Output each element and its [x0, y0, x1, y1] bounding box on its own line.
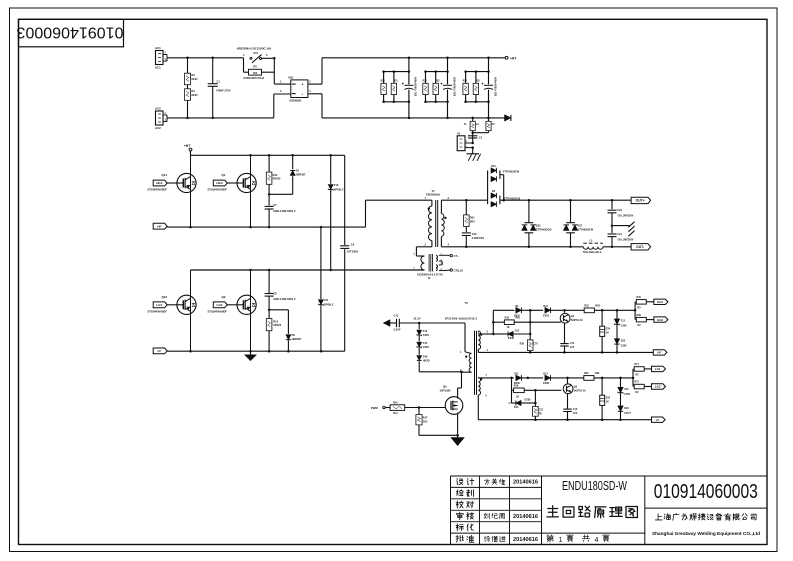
capacitor C8 (snubber) [265, 270, 296, 310]
svg-text:+: + [302, 82, 304, 86]
svg-text:Q5: Q5 [574, 386, 578, 389]
svg-text:R30: R30 [381, 81, 386, 83]
resistor R3 [185, 58, 199, 85]
zener Z23 [618, 378, 631, 396]
svg-text:Q1: Q1 [222, 173, 226, 177]
resistor R18 [493, 316, 560, 329]
net flag OUT- [631, 244, 651, 250]
svg-text:CT(L)A: CT(L)A [454, 268, 463, 272]
svg-text:D25XB60: D25XB60 [290, 98, 302, 102]
wire secondary- rail [441, 246, 631, 249]
svg-text:+HT: +HT [510, 56, 516, 60]
wire aux supply rail [418, 322, 472, 354]
svg-text:20140616: 20140616 [513, 514, 538, 520]
svg-text:R33: R33 [435, 81, 440, 83]
svg-text:BCP52-16: BCP52-16 [574, 390, 586, 393]
capacitor C1 [208, 58, 231, 118]
connector AC2 [155, 107, 167, 131]
svg-text:T3: T3 [464, 301, 468, 305]
capacitor C21 (Y-cap) [608, 224, 634, 246]
svg-text:CBB 2.2NF/1600 V: CBB 2.2NF/1600 V [273, 297, 296, 301]
svg-text:1R2: 1R2 [253, 72, 258, 75]
arrow DC- off-page [505, 115, 511, 122]
transformer T1 [425, 189, 450, 247]
wire secondary+ rail [441, 199, 631, 202]
svg-text:C30V: C30V [423, 346, 430, 349]
diode D12 [543, 373, 550, 386]
label 31.2V [414, 317, 421, 321]
svg-text:T1: T1 [431, 189, 435, 193]
svg-text:Q12: Q12 [162, 295, 168, 299]
svg-text:AC2: AC2 [155, 107, 161, 111]
company name 上海广为焊接设备有限公司 [655, 513, 756, 520]
svg-text:Y2A,1NF/250V: Y2A,1NF/250V [617, 214, 633, 217]
svg-text:R23: R23 [584, 372, 589, 375]
capacitor E25 [600, 378, 611, 420]
svg-text:HF: HF [157, 224, 161, 228]
svg-text:E02 470UF/400V: E02 470UF/400V [453, 76, 456, 96]
svg-text:8K22: 8K22 [192, 94, 199, 97]
resistor R13 (snubber) [266, 310, 281, 351]
wire bridge pin4 to DC return [308, 94, 322, 118]
svg-text:R32: R32 [423, 81, 428, 83]
svg-text:EE65X65x9: EE65X65x9 [426, 193, 440, 197]
zener Z13 [614, 310, 627, 327]
svg-text:C21: C21 [539, 409, 544, 412]
svg-text:STGW40V60DF: STGW40V60DF [208, 188, 228, 192]
capacitor C15 [563, 408, 578, 420]
svg-text:ENDU180SD-W: ENDU180SD-W [562, 479, 627, 493]
svg-text:+HT: +HT [184, 144, 190, 148]
svg-text:3R3: 3R3 [470, 221, 475, 224]
svg-text:T106-26&A-04LA: T106-26&A-04LA [583, 251, 602, 254]
resistor R16 [390, 401, 445, 415]
svg-text:Z13: Z13 [621, 320, 626, 323]
svg-text:1K: 1K [516, 395, 519, 398]
svg-text:Z11: Z11 [324, 298, 329, 302]
svg-text:HG2: HG2 [216, 181, 223, 185]
svg-text:1: 1 [559, 537, 563, 544]
resistor R71 [633, 363, 652, 376]
svg-text:Q3: Q3 [443, 384, 447, 388]
net flag OUT+ [631, 197, 651, 203]
diode D1 (snubber) [268, 155, 306, 195]
wire bridge pin2 to DC bus [308, 58, 322, 84]
svg-text:4: 4 [595, 537, 599, 544]
vertical bus to gate resistors (upper) [634, 302, 636, 320]
capacitor C22 (Y-cap) [608, 200, 634, 225]
transistor Q3 [440, 372, 463, 435]
wire aux upper node2 [551, 309, 585, 312]
vertical x=535 (lower aux) [534, 390, 536, 406]
svg-text:EE16X8X4.8-0.2-2T 5%: EE16X8X4.8-0.2-2T 5% [417, 273, 443, 276]
capacitor C2 [468, 136, 483, 144]
svg-text:K01: K01 [254, 52, 259, 55]
transformer T3 core [475, 331, 477, 395]
svg-text:D10: D10 [543, 305, 548, 308]
svg-text:R18: R18 [505, 316, 510, 319]
wire lower collector rail [191, 269, 425, 272]
capacitor bank group 3 (E03 with bleeders R34 R35) [463, 58, 498, 118]
net flag LG2 [213, 302, 227, 308]
diode D22 [614, 324, 627, 352]
svg-text:OUT-: OUT- [636, 245, 644, 249]
title block approval table text [456, 478, 538, 542]
svg-text:1K: 1K [606, 331, 609, 334]
svg-text:LG2: LG2 [655, 385, 661, 389]
wire aux lower feed [510, 377, 514, 403]
svg-text:ES36: ES36 [525, 398, 532, 401]
capacitor C20 (RC snubber) [462, 233, 485, 247]
svg-text:7R: 7R [539, 413, 542, 416]
svg-text:AC1: AC1 [155, 46, 161, 50]
ground below Q3 [451, 435, 465, 445]
svg-text:R21: R21 [470, 217, 475, 220]
svg-text:C30V: C30V [621, 325, 627, 328]
svg-text:R72: R72 [634, 381, 639, 384]
wire relay to bridge [262, 57, 291, 84]
svg-text:470NF 275V: 470NF 275V [216, 89, 231, 93]
transistor Q12 [148, 270, 197, 351]
svg-text:C9: C9 [351, 242, 355, 246]
svg-text:2.2NF/2KV: 2.2NF/2KV [472, 237, 485, 240]
wire aux lower return [478, 418, 651, 421]
diode pair D17 (freewheel) [563, 200, 593, 247]
svg-text:1K2: 1K2 [423, 420, 428, 423]
diode pair D21 [488, 165, 520, 200]
svg-text:D22: D22 [621, 340, 626, 343]
transil Z11 [318, 227, 334, 351]
varistor Z2 [471, 118, 495, 134]
svg-text:LF: LF [158, 349, 162, 353]
title ENDU180SD-W [562, 479, 627, 493]
net flag LF (aux) [652, 417, 666, 422]
page number row (sheet 1 of 4) [547, 535, 610, 544]
svg-text:ES16: ES16 [543, 314, 550, 317]
varistor Z1 [464, 118, 480, 143]
svg-text:R13: R13 [273, 319, 278, 323]
document number 010914060003 [654, 480, 758, 503]
net flag LG2 (aux) [652, 384, 666, 389]
svg-text:LF: LF [656, 418, 660, 422]
svg-text:E03 470UF/400V: E03 470UF/400V [494, 76, 497, 96]
vertical x=530 (upper aux) [529, 310, 531, 340]
capacitor C9 [340, 155, 358, 351]
svg-text:10F1N20: 10F1N20 [440, 388, 452, 392]
wire aux upper feed [492, 310, 514, 335]
transformer T3 secondary upper [478, 331, 493, 352]
svg-text:C30 V: C30 V [624, 412, 631, 415]
diode pair D0 [488, 190, 521, 207]
resistor R69 [635, 314, 654, 327]
diode pair D23 (freewheel) [522, 200, 552, 247]
svg-text:ES36: ES36 [543, 382, 550, 385]
relay K01 [237, 46, 272, 63]
svg-text:D2: D2 [292, 333, 296, 337]
svg-text:C7: C7 [273, 203, 277, 207]
title 主回路原理图 (main circuit schematic) [547, 506, 637, 518]
svg-text:LG2: LG2 [216, 303, 222, 307]
transil Z10 [328, 155, 344, 270]
svg-text:HF: HF [657, 351, 661, 355]
zener Z15 [417, 336, 430, 349]
diode D14 [508, 398, 537, 409]
svg-text:C70: C70 [533, 343, 538, 346]
svg-text:Y2A,1NF/250V: Y2A,1NF/250V [617, 238, 633, 241]
svg-text:R62: R62 [595, 305, 600, 308]
svg-text:ES16: ES16 [514, 314, 521, 317]
transformer T3 labels [445, 301, 478, 321]
terminal +HT (bridge section) [184, 144, 192, 155]
svg-text:STTH6003CW: STTH6003CW [503, 170, 520, 173]
resistor R70 [635, 296, 654, 309]
arrow aux supply off-page [383, 320, 396, 327]
svg-text:C13: C13 [394, 313, 399, 317]
svg-text:C14: C14 [570, 342, 575, 345]
svg-text:D14: D14 [514, 406, 519, 409]
capacitor bank group 2 (E02 with bleeders R32 R33) [423, 58, 457, 118]
svg-text:C21: C21 [617, 233, 622, 236]
wire DC+ bus [322, 57, 505, 60]
svg-text:R35: R35 [475, 81, 480, 83]
vertical bus to gate resistors (lower) [632, 369, 634, 387]
svg-text:1K: 1K [606, 400, 609, 403]
svg-text:HG2: HG2 [657, 318, 663, 322]
svg-text:E25: E25 [606, 396, 611, 399]
svg-text:E01 470UF/400V: E01 470UF/400V [415, 76, 418, 96]
wire aux lower node2 [551, 377, 584, 380]
resistor R21 (aux) [533, 406, 544, 419]
resistor R12 (snubber) [266, 155, 281, 194]
svg-text:D13: D13 [515, 329, 520, 332]
wire Q3 source return [419, 434, 459, 437]
capacitor C14 [560, 342, 575, 352]
wire aux upper node1 [521, 309, 543, 312]
wire aux upper return [482, 351, 653, 354]
transistor Q11 [148, 155, 197, 227]
svg-text:R31: R31 [393, 81, 398, 83]
ground (power) below Q2 [245, 351, 257, 361]
svg-text:E24: E24 [606, 327, 611, 330]
net flag HF [153, 223, 167, 229]
terminal PWM [371, 406, 390, 410]
zener Z12 [417, 323, 430, 337]
wire mid rail to T1 pin1 [366, 200, 432, 227]
connector X3 [457, 132, 474, 150]
svg-text:C1: C1 [217, 80, 221, 84]
diode D26 [618, 393, 632, 420]
svg-text:R19: R19 [514, 385, 519, 388]
svg-text:D1: D1 [296, 169, 300, 173]
transistor Q1 [208, 155, 257, 227]
svg-text:D26: D26 [624, 407, 629, 410]
svg-text:ES36: ES36 [508, 337, 515, 340]
wire AC live [167, 57, 244, 60]
svg-text:D21: D21 [491, 165, 496, 168]
svg-text:0RV22: 0RV22 [273, 177, 281, 181]
net flag HG2 (aux) [654, 317, 668, 322]
svg-text:D12: D12 [543, 373, 548, 376]
capacitor C7 (snubber) [265, 194, 296, 227]
svg-text:Z23: Z23 [624, 388, 629, 391]
svg-text:HK2D: HK2D [423, 360, 430, 363]
svg-text:K3FW-8KS-P%x1: K3FW-8KS-P%x1 [244, 76, 266, 80]
transformer T3 primary [460, 351, 472, 373]
bridge rectifier B01 [280, 76, 311, 103]
svg-text:STGW40V60DF: STGW40V60DF [208, 309, 228, 313]
svg-text:BF60LC: BF60LC [334, 187, 344, 191]
svg-text:Q11: Q11 [162, 173, 168, 177]
resistor R17 [416, 408, 428, 436]
wire AC neutral [167, 117, 274, 120]
svg-text:1K: 1K [507, 326, 510, 329]
svg-text:D11: D11 [514, 373, 519, 376]
svg-text:BCP52-16: BCP52-16 [571, 319, 583, 322]
inductor L2 [583, 240, 603, 254]
svg-text:HER307: HER307 [292, 337, 302, 341]
svg-text:C30V: C30V [624, 393, 630, 396]
svg-text:D23: D23 [536, 224, 541, 227]
resistor R23 [584, 372, 634, 380]
svg-text:R70: R70 [637, 296, 642, 299]
transistor Q2 [208, 270, 257, 351]
svg-text:C30V: C30V [621, 345, 627, 348]
svg-text:STTH6003CW: STTH6003CW [504, 197, 521, 200]
svg-text:Z15: Z15 [423, 342, 428, 345]
svg-text:CT−: CT− [454, 254, 460, 258]
svg-text:010914060003: 010914060003 [654, 480, 758, 503]
svg-text:1UF 630V: 1UF 630V [347, 250, 359, 254]
svg-text:R20: R20 [520, 343, 525, 346]
svg-text:31.2V: 31.2V [414, 317, 421, 321]
svg-text:LG1: LG1 [156, 303, 162, 307]
net flag LG1 [153, 302, 167, 308]
wire AC2 to bridge [274, 94, 291, 118]
wire +HT rail [191, 154, 345, 157]
svg-text:2.2UF: 2.2UF [394, 328, 401, 332]
svg-text:HG1: HG1 [657, 300, 663, 304]
transistor Q4 [560, 310, 583, 343]
resistor R72 [633, 381, 652, 394]
svg-text:C30V: C30V [423, 334, 430, 337]
net flag LF [153, 348, 167, 354]
wire LF rail [167, 350, 345, 353]
terminal CT(L)A [442, 268, 463, 272]
svg-text:Z10: Z10 [334, 183, 339, 187]
svg-text:R71: R71 [634, 363, 639, 366]
svg-text:HG1: HG1 [156, 181, 163, 185]
connector AC1 [155, 46, 167, 70]
svg-text:LG1: LG1 [655, 367, 661, 371]
svg-text:EF25-25HL-2b2b2LV/V12+2: EF25-25HL-2b2b2LV/V12+2 [445, 318, 478, 321]
svg-text:Z12: Z12 [423, 330, 428, 333]
svg-text:R12: R12 [273, 173, 278, 177]
wire HF mid rail [167, 226, 365, 229]
svg-text:D18: D18 [423, 356, 428, 359]
svg-text:OUT+: OUT+ [636, 199, 645, 203]
diode D9 [514, 305, 522, 318]
resistor R22 [584, 305, 636, 313]
resistor R0 (relay bypass) [244, 58, 275, 80]
title block grid [451, 476, 768, 545]
diode D18 [417, 348, 462, 372]
svg-text:8K22: 8K22 [192, 78, 199, 81]
svg-text:AC2: AC2 [155, 126, 161, 130]
chassis ground [612, 222, 635, 237]
resistor R4 [185, 85, 199, 118]
svg-text:R62: R62 [595, 372, 600, 375]
svg-text:Q4: Q4 [571, 315, 575, 318]
svg-text:C22: C22 [617, 209, 622, 212]
capacitor E24 [600, 310, 611, 352]
svg-text:HER307: HER307 [296, 172, 306, 176]
svg-text:1K2: 1K2 [393, 412, 398, 415]
svg-text:STTH6003CW: STTH6003CW [536, 229, 552, 232]
terminal CT- [442, 254, 459, 258]
svg-text:1UF: 1UF [573, 412, 578, 415]
document number box (top-left) [17, 19, 124, 47]
resistor R20 [520, 340, 539, 353]
diode D11 [514, 373, 522, 386]
svg-text:B01: B01 [289, 76, 294, 80]
svg-text:20140616: 20140616 [513, 537, 538, 543]
svg-text:R34: R34 [463, 80, 468, 83]
net flag HF (aux) [653, 350, 667, 355]
diode D10 [543, 305, 550, 318]
svg-text:R69: R69 [637, 314, 642, 317]
transformer T3 secondary lower [478, 375, 511, 420]
svg-text:20140616: 20140616 [513, 480, 538, 486]
svg-text:R16: R16 [393, 401, 398, 404]
svg-text:BF60LC: BF60LC [324, 303, 334, 307]
svg-text:Q2: Q2 [222, 295, 226, 299]
svg-text:STTH6003CW: STTH6003CW [578, 229, 594, 232]
svg-text:STGW40V60DF: STGW40V60DF [148, 188, 168, 192]
capacitor C13 [394, 313, 420, 331]
svg-text:STGW40V60DF: STGW40V60DF [148, 309, 168, 313]
resistor R19 [512, 385, 562, 399]
net flag HG2 [213, 180, 227, 186]
wire T1 pin2 to T2 [416, 247, 432, 256]
capacitor bank group 1 (E01 with bleeders R30 R31) [381, 58, 418, 118]
svg-text:C20: C20 [472, 233, 477, 236]
svg-text:C15: C15 [573, 408, 578, 411]
ground (earth) below X3 [467, 148, 481, 161]
wire DC- bus [322, 117, 505, 120]
svg-text:R17: R17 [423, 416, 428, 419]
diode D2 (snubber) [268, 309, 302, 352]
svg-text:HRS3FNH-S-DC12VDC-10A: HRS3FNH-S-DC12VDC-10A [237, 46, 272, 50]
terminal +HT (top) [505, 56, 516, 60]
svg-text:0RV22: 0RV22 [273, 323, 281, 327]
net flag HG1 [153, 180, 167, 186]
svg-text:CBB 2.2NF/1600 V: CBB 2.2NF/1600 V [273, 209, 296, 213]
svg-text:PWM: PWM [371, 406, 378, 410]
diode D13 [493, 329, 531, 340]
net flag HG1 (aux) [654, 299, 668, 304]
svg-text:D17: D17 [578, 224, 583, 227]
transistor Q5 [563, 378, 586, 409]
resistor R21 (RC snubber) [464, 200, 476, 232]
wire aux lower node1 [521, 377, 543, 380]
net flag LG1 (aux) [652, 366, 666, 371]
svg-text:010914060003: 010914060003 [17, 24, 124, 41]
current transformer T2 [405, 254, 444, 280]
svg-text:R22: R22 [584, 305, 589, 308]
svg-text:Shanghai Greatway Welding Equi: Shanghai Greatway Welding Equipment CO.,… [652, 531, 760, 537]
company name english [652, 531, 760, 537]
svg-text:AC1: AC1 [155, 66, 161, 70]
